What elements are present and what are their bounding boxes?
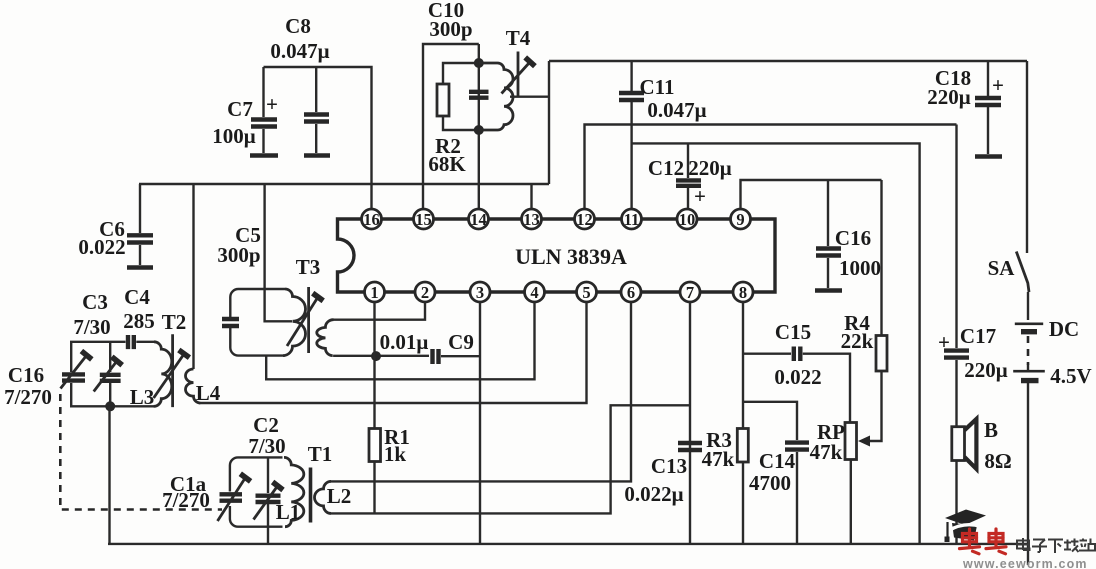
node junction dot pin1 column xyxy=(371,351,381,361)
variable capacitor C16 on left edge xyxy=(4,351,92,409)
svg-text:B: B xyxy=(984,418,998,442)
svg-text:C7: C7 xyxy=(227,97,253,121)
resistor R3 on pin8 column xyxy=(702,428,749,544)
svg-text:+: + xyxy=(992,73,1004,97)
svg-text:C11: C11 xyxy=(639,75,674,99)
svg-text:220μ: 220μ xyxy=(964,358,1008,382)
pin 16 xyxy=(362,209,382,229)
inductor L2 coil xyxy=(315,481,352,513)
svg-text:DC: DC xyxy=(1049,317,1079,341)
svg-text:6: 6 xyxy=(627,283,635,302)
svg-text:220μ: 220μ xyxy=(927,85,971,109)
capacitor C9 xyxy=(380,330,480,364)
resistor R2 xyxy=(428,63,478,176)
svg-text:2: 2 xyxy=(421,283,429,302)
svg-text:0.047μ: 0.047μ xyxy=(647,98,706,122)
svg-text:220μ: 220μ xyxy=(688,156,732,180)
svg-text:0.022: 0.022 xyxy=(78,235,125,259)
capacitor C14 xyxy=(743,402,809,544)
svg-text:0.022μ: 0.022μ xyxy=(624,482,683,506)
node junction dots on pin14 column xyxy=(474,58,484,68)
svg-text:1000: 1000 xyxy=(839,256,881,280)
svg-text:0.01μ: 0.01μ xyxy=(380,330,429,354)
T2 core bar xyxy=(171,334,174,407)
battery DC 4.5V xyxy=(1013,317,1092,565)
svg-text:4700: 4700 xyxy=(749,471,791,495)
pin 12 xyxy=(575,209,595,229)
pin 9 xyxy=(731,209,751,229)
wire pin3 column to ground rail xyxy=(479,302,481,544)
pin 15 xyxy=(414,209,434,229)
svg-text:C12: C12 xyxy=(648,156,684,180)
svg-text:L2: L2 xyxy=(327,484,352,508)
svg-text:L1: L1 xyxy=(276,500,301,524)
speaker B xyxy=(952,418,1012,544)
wire pin1 column xyxy=(373,302,375,429)
svg-text:0.047μ: 0.047μ xyxy=(270,39,329,63)
transformer T3 secondary coil xyxy=(317,320,334,356)
svg-text:7: 7 xyxy=(686,283,694,302)
wire pin5 to L4 xyxy=(199,302,587,403)
svg-text:10: 10 xyxy=(679,210,696,229)
svg-text:14: 14 xyxy=(470,210,487,229)
wire T4 right vertical xyxy=(548,61,550,184)
pin 7 xyxy=(680,282,700,302)
inductor L1 coil xyxy=(276,457,304,526)
svg-text:8: 8 xyxy=(739,283,747,302)
tank box C3/L3 with C4 in top edge xyxy=(71,335,154,406)
L3 adjust arrow xyxy=(154,350,190,398)
svg-text:L4: L4 xyxy=(196,381,221,405)
pin 8 xyxy=(733,282,753,302)
svg-text:4.5V: 4.5V xyxy=(1050,364,1091,388)
wire pin6 to L2 top xyxy=(330,302,631,481)
svg-text:68K: 68K xyxy=(428,152,466,176)
capacitor C13 on pin7 column xyxy=(624,443,702,506)
pin 11 xyxy=(622,209,642,229)
svg-text:7/30: 7/30 xyxy=(248,434,285,458)
svg-text:C8: C8 xyxy=(285,14,311,38)
node junction dot tank bottom xyxy=(105,401,115,411)
svg-text:16: 16 xyxy=(363,210,380,229)
capacitor C12 xyxy=(648,143,732,219)
wire L2 bottom to pin7 column xyxy=(330,405,690,513)
svg-text:C16: C16 xyxy=(8,363,44,387)
pin 10 xyxy=(677,209,697,229)
dashed gang link C16 to C1a xyxy=(60,394,222,510)
capacitor C5 line to T3 tap xyxy=(217,184,292,321)
wire pin7 column xyxy=(689,302,691,544)
resistor R1 xyxy=(369,425,410,513)
wire pin2 to T3 secondary top xyxy=(333,302,425,320)
inductor L4 coil with lead from mid rail xyxy=(185,184,220,405)
svg-text:0.022: 0.022 xyxy=(774,365,821,389)
wire C7/C8 top rail to pin16 column xyxy=(264,67,372,219)
svg-text:C13: C13 xyxy=(651,454,687,478)
watermark graduation cap logo xyxy=(945,510,987,543)
svg-text:3: 3 xyxy=(476,283,484,302)
pin 3 xyxy=(470,282,490,302)
svg-text:C14: C14 xyxy=(759,449,796,473)
pin 14 xyxy=(469,209,489,229)
svg-text:5: 5 xyxy=(582,283,590,302)
wire pin11 rail to right vertical xyxy=(632,143,920,544)
svg-text:C4: C4 xyxy=(124,285,150,309)
capacitor in T4 tank xyxy=(469,92,489,98)
wire pin8 column xyxy=(742,302,744,429)
svg-text:11: 11 xyxy=(624,210,640,229)
svg-text:+: + xyxy=(694,184,706,208)
svg-text:1: 1 xyxy=(370,283,378,302)
svg-text:C15: C15 xyxy=(775,320,811,344)
svg-text:ULN 3839A: ULN 3839A xyxy=(515,244,627,269)
svg-text:1k: 1k xyxy=(384,442,407,466)
wire pin9 rail to R4 xyxy=(741,180,882,219)
svg-text:300p: 300p xyxy=(429,17,472,41)
svg-text:T4: T4 xyxy=(506,26,531,50)
svg-text:C9: C9 xyxy=(448,330,474,354)
variable capacitor C1a on left edge xyxy=(162,472,251,521)
capacitor C18 xyxy=(927,61,1004,157)
wire pin13 stub to mid rail xyxy=(530,184,532,209)
capacitor C10 loop wires xyxy=(423,44,479,219)
pin 2 xyxy=(415,282,435,302)
transformer T3 primary coil xyxy=(283,289,306,356)
wire top supply rail xyxy=(549,60,1027,62)
wire pin4 to T3 primary bottom xyxy=(266,302,534,379)
svg-text:7/270: 7/270 xyxy=(162,488,210,512)
R4 wiper arrowhead into RP xyxy=(858,436,870,447)
svg-text:SA: SA xyxy=(988,256,1016,280)
svg-text:C16: C16 xyxy=(835,226,871,250)
svg-text:100μ: 100μ xyxy=(212,124,256,148)
T4 tap wire xyxy=(510,95,549,97)
tank box C1a/L1 xyxy=(230,457,283,526)
variable capacitor C3 xyxy=(73,285,154,406)
svg-text:7/30: 7/30 xyxy=(73,315,110,339)
inductor L3 coil xyxy=(130,342,172,409)
capacitor C16 (1000) xyxy=(815,180,881,291)
svg-text:www.eeworm.com: www.eeworm.com xyxy=(962,557,1088,569)
switch SA xyxy=(988,61,1029,320)
capacitor C17 xyxy=(938,125,1008,427)
pin 13 xyxy=(522,209,542,229)
svg-text:+: + xyxy=(266,92,278,116)
svg-text:13: 13 xyxy=(523,210,540,229)
T3 core bar xyxy=(307,287,310,353)
transformer T4 coil xyxy=(479,26,531,130)
svg-text:C3: C3 xyxy=(82,290,108,314)
svg-text:L3: L3 xyxy=(130,385,155,409)
svg-text:47k: 47k xyxy=(810,440,843,464)
T4 adjust arrow xyxy=(502,57,535,93)
svg-text:15: 15 xyxy=(415,210,432,229)
svg-text:8Ω: 8Ω xyxy=(984,449,1011,473)
capacitor C6 xyxy=(78,184,153,268)
transformer T3 tank box with capacitor on left edge xyxy=(222,289,285,356)
T3 adjust arrow xyxy=(287,293,323,346)
variable capacitor C2 xyxy=(248,413,285,544)
wire pin12 rail to C17 xyxy=(585,125,957,220)
pin 5 xyxy=(577,282,597,302)
svg-text:T3: T3 xyxy=(296,255,321,279)
pin 4 xyxy=(525,282,545,302)
T1 core bar xyxy=(309,468,313,523)
capacitor C8 xyxy=(270,14,330,156)
potentiometer RP xyxy=(810,420,857,544)
resistor R4 xyxy=(841,180,887,441)
svg-text:300p: 300p xyxy=(217,243,260,267)
wire bottom ground rail xyxy=(108,543,1027,545)
wire T3 secondary bottom / C9 net xyxy=(333,355,429,357)
watermark site name glyphs xyxy=(1017,538,1095,553)
svg-text:47k: 47k xyxy=(702,447,735,471)
capacitor C7 xyxy=(212,67,278,156)
svg-text:T2: T2 xyxy=(162,310,187,334)
svg-text:22k: 22k xyxy=(841,329,874,353)
pin 6 xyxy=(621,282,641,302)
svg-text:C17: C17 xyxy=(960,324,996,348)
svg-text:285: 285 xyxy=(123,309,155,333)
wire tank junction to ground rail xyxy=(108,406,110,544)
capacitor C15 xyxy=(743,320,850,423)
wire mid rail y=184 xyxy=(139,183,549,185)
svg-text:+: + xyxy=(938,330,950,354)
svg-text:12: 12 xyxy=(576,210,593,229)
op-amp IC U1 ULN3839A body xyxy=(338,219,776,292)
svg-text:9: 9 xyxy=(736,210,744,229)
svg-text:7/270: 7/270 xyxy=(4,385,52,409)
wire pin14 column through T4 tank xyxy=(478,44,480,219)
capacitor C11 xyxy=(619,61,707,219)
svg-text:T1: T1 xyxy=(308,442,333,466)
T4 core bar xyxy=(517,52,520,97)
svg-text:4: 4 xyxy=(530,283,538,302)
pin 1 xyxy=(365,282,385,302)
